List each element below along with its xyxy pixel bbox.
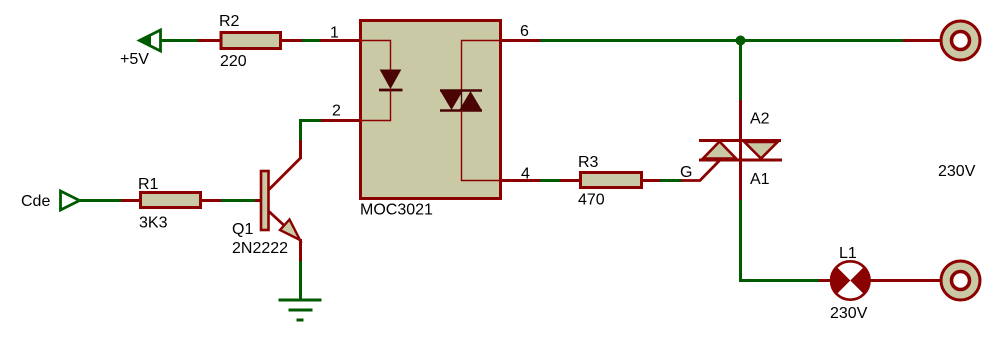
U1 pin 4: [500, 179, 540, 182]
U1 internal wire pin6 to phototriac: [462, 41, 500, 91]
wire triac A1 down to lamp: [741, 200, 821, 281]
U1 internal LED diode: [379, 70, 403, 90]
U1 internal wire pin1 to LED anode: [361, 41, 391, 71]
svg-text:230V: 230V: [938, 163, 976, 180]
svg-text:2N2222: 2N2222: [232, 240, 288, 257]
wire R1 to Q1 base: [221, 199, 256, 202]
U1 internal wire LED cathode to pin2: [361, 90, 391, 121]
svg-text:1: 1: [330, 25, 339, 42]
transistor Q1 2N2222: [255, 139, 301, 262]
U1 internal wire phototriac to pin4: [462, 110, 500, 181]
svg-text:MOC3021: MOC3021: [360, 202, 433, 219]
svg-text:R3: R3: [578, 154, 599, 171]
svg-text:L1: L1: [839, 245, 857, 262]
wire Q1 collector to U1 pin2: [301, 121, 322, 141]
lamp L1: [819, 260, 940, 301]
wire +5V to R2: [161, 39, 199, 42]
wire R2 to U1 pin 1: [302, 39, 321, 42]
U1 internal phototriac: [440, 90, 482, 111]
U1 pin 6: [500, 39, 540, 42]
terminal J2 bottom right: [941, 261, 980, 300]
svg-text:3K3: 3K3: [139, 215, 168, 232]
terminal J1 top right: [903, 21, 980, 60]
svg-text:+5V: +5V: [120, 51, 149, 68]
svg-text:470: 470: [578, 192, 605, 209]
wire Q1 emitter to ground: [299, 261, 302, 300]
ground: [279, 300, 322, 320]
junction node: [736, 36, 746, 46]
svg-text:A1: A1: [750, 171, 770, 188]
power terminal +5V arrow: [139, 30, 161, 51]
wire Cde to R1: [79, 199, 122, 202]
wire R3 to triac gate: [660, 179, 682, 182]
resistor R1: [121, 193, 221, 208]
triac U2: [681, 100, 782, 201]
wire pin4 to R3: [540, 179, 561, 182]
resistor R3: [560, 173, 661, 188]
svg-text:R2: R2: [219, 13, 240, 30]
svg-text:220: 220: [220, 53, 247, 70]
svg-text:4: 4: [521, 166, 530, 183]
svg-text:G: G: [680, 164, 692, 181]
svg-text:R1: R1: [138, 176, 159, 193]
svg-text:6: 6: [520, 23, 529, 40]
svg-text:A2: A2: [750, 111, 770, 128]
svg-text:Cde: Cde: [21, 193, 50, 210]
wire junction down to triac A2: [739, 41, 742, 102]
U1 pin 1: [320, 39, 360, 42]
input terminal Cde arrow: [61, 191, 80, 210]
svg-text:2: 2: [332, 103, 341, 120]
optocoupler U1 MOC3021 body: [361, 21, 501, 199]
U1 pin 2: [320, 119, 360, 122]
svg-text:230V: 230V: [830, 305, 868, 322]
resistor R2: [198, 33, 302, 49]
wire pin6 to terminal J1: [540, 39, 903, 42]
svg-text:Q1: Q1: [232, 221, 253, 238]
